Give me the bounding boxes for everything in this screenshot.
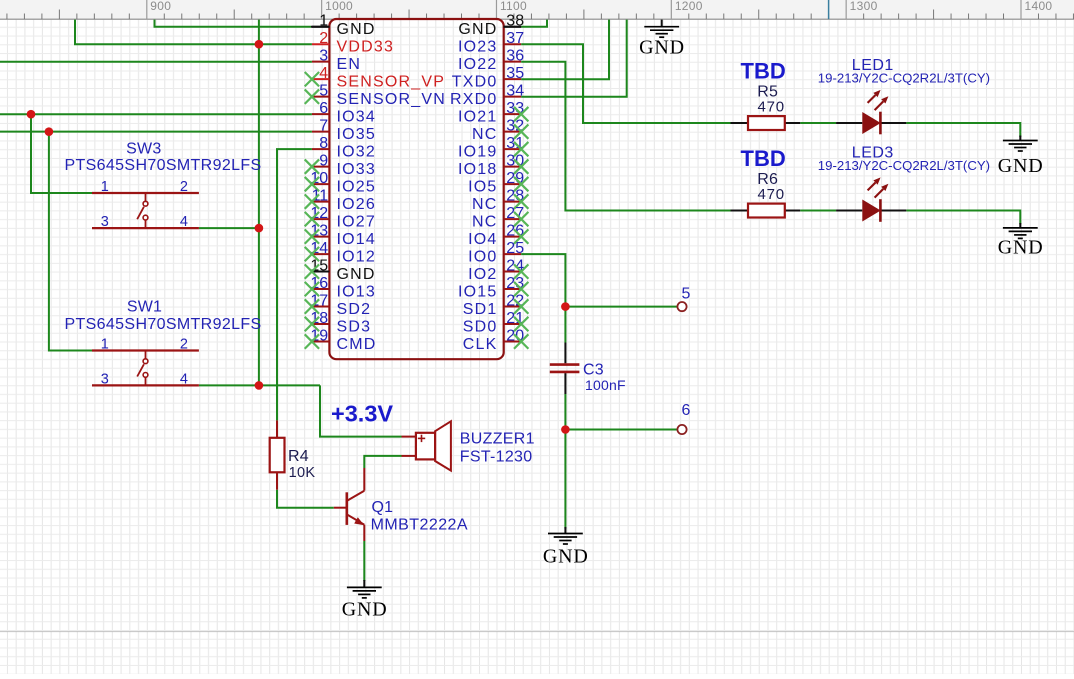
wire IO23 to R5 [521,44,730,123]
svg-text:7: 7 [319,118,328,135]
svg-text:3: 3 [319,48,328,65]
svg-text:SENSOR_VP: SENSOR_VP [337,73,446,90]
wire pin1 stub segment (black) [311,26,329,28]
transistor Q1 [334,468,468,541]
svg-text:1300: 1300 [850,0,878,13]
svg-text:IO13: IO13 [337,283,377,300]
svg-text:900: 900 [150,0,171,13]
wire pin1 GND net [155,20,312,27]
wire R5 to LED1 [800,122,836,124]
capacitor C3 [550,343,626,395]
svg-text:6: 6 [682,402,692,419]
wire Q1 collector to buzzer [364,456,401,468]
junction [255,381,264,390]
wire VDD33 net [75,20,312,45]
svg-text:TBD: TBD [741,59,786,84]
svg-text:8: 8 [319,135,328,152]
svg-text:IO14: IO14 [337,231,377,248]
svg-text:SW1: SW1 [127,299,162,316]
svg-text:Q1: Q1 [372,499,394,516]
wire SW1 pin4 to buzzer node [199,384,320,386]
svg-text:PTS645SH70SMTR92LFS: PTS645SH70SMTR92LFS [65,316,262,333]
svg-text:GND: GND [543,546,589,568]
wire Q1 emitter to GND [363,541,365,581]
svg-text:6: 6 [319,100,328,117]
junction [45,127,54,136]
wire SW3 pin4 to bus [199,227,259,229]
IC U1 (ESP32 module) body [329,19,503,359]
wire pin38 stub segment (black) [504,26,522,28]
wire node to buzzer plus [320,385,402,436]
ground flag (Q1 emitter) [342,580,388,621]
wire IO35 net [0,131,312,133]
U1 pin 27 (NC) [472,205,528,230]
U1 pin 32 (NC) [472,118,528,143]
svg-text:SD2: SD2 [337,301,372,318]
svg-text:NC: NC [472,196,498,213]
wire EN net [0,61,312,63]
svg-text:C3: C3 [583,362,604,379]
svg-text:SENSOR_VN: SENSOR_VN [337,91,447,108]
svg-text:1000: 1000 [325,0,353,13]
U1 pin 22 (SD1) [463,293,529,318]
U1 pin 15 (GND) [305,258,376,283]
buzzer BUZZER1 [402,421,535,470]
svg-text:3: 3 [101,214,110,230]
wire vertical bus to SW pin4s [258,20,260,386]
svg-text:IO2: IO2 [468,266,497,283]
svg-text:SD3: SD3 [337,318,372,335]
U1 pin 37 (IO23) [458,30,524,55]
U1 pin 23 (IO15) [458,275,528,300]
U1 pin 29 (IO5) [468,170,528,195]
svg-text:1: 1 [101,179,110,195]
svg-text:IO15: IO15 [458,283,498,300]
wire LED1 to GND [906,123,1020,137]
wire R4 to Q1 base [277,490,334,508]
svg-text:GND: GND [998,237,1044,259]
resistor R5 [731,59,801,130]
junction [255,224,264,233]
junction [561,425,570,434]
U1 pin 30 (IO18) [458,153,528,178]
U1 pin 17 (SD2) [305,293,372,318]
U1 pin 9 (IO33) [305,153,376,178]
svg-text:3: 3 [101,372,110,388]
ground flag (top, pin38 net) [639,20,685,59]
svg-text:CLK: CLK [463,336,498,353]
U1 pin 10 (IO25) [305,170,376,195]
svg-text:IO23: IO23 [458,38,498,55]
wire IO34 to SW3 pin1 [31,114,92,193]
svg-text:SD1: SD1 [463,301,498,318]
junction [561,302,570,311]
svg-text:2: 2 [180,179,189,195]
svg-text:5: 5 [682,285,692,302]
svg-text:TBD: TBD [741,146,786,171]
U1 pin 31 (IO19) [458,135,528,160]
ground flag (C3 / node 6) [543,527,589,568]
node 6 pad [677,402,691,434]
wire IO34 net [0,113,312,115]
svg-text:NC: NC [472,126,498,143]
wire node 5 horizontal [565,306,677,308]
U1 pin 19 (CMD) [305,328,377,353]
svg-text:SW3: SW3 [126,141,161,158]
ruler [0,0,1074,20]
svg-text:4: 4 [180,214,189,230]
U1 pin 20 (CLK) [463,328,529,353]
U1 pin 1 (GND) [312,13,376,38]
svg-text:R4: R4 [288,448,309,465]
wire TXD0 net [521,20,609,80]
wire RXD0 net [521,20,627,97]
svg-text:9: 9 [319,153,328,170]
resistor R4 [270,420,316,489]
U1 pin 14 (IO12) [305,240,376,265]
U1 pin 24 (IO2) [468,258,528,283]
svg-text:IO12: IO12 [337,248,377,265]
svg-text:IO18: IO18 [458,161,498,178]
U1 pin 36 (IO22) [458,48,524,73]
svg-text:19-213/Y2C-CQ2R2L/3T(CY): 19-213/Y2C-CQ2R2L/3T(CY) [818,71,990,86]
svg-text:IO5: IO5 [468,178,497,195]
svg-text:IO21: IO21 [458,108,498,125]
svg-text:IO32: IO32 [337,143,377,160]
LED3 [818,145,990,222]
svg-text:EN: EN [337,56,362,73]
resistor R6 [731,146,801,217]
wire IO0 pin25 to C3 [521,254,565,342]
svg-text:IO27: IO27 [337,213,377,230]
svg-text:GND: GND [639,37,685,59]
svg-text:1100: 1100 [500,0,527,13]
svg-text:IO4: IO4 [468,231,497,248]
svg-text:IO35: IO35 [337,126,377,143]
junction [27,110,36,119]
svg-text:10K: 10K [289,465,316,481]
svg-text:GND: GND [337,21,376,38]
svg-text:GND: GND [998,155,1044,177]
wire R6 to LED3 [800,210,836,212]
svg-text:4: 4 [319,65,328,82]
U1 pin 8 (IO32) [312,135,376,160]
wire C3 bottom to GND [564,394,566,529]
U1 pin 11 (IO26) [305,188,376,213]
svg-text:1200: 1200 [675,0,703,13]
svg-text:470: 470 [758,98,785,115]
svg-text:PTS645SH70SMTR92LFS: PTS645SH70SMTR92LFS [65,157,262,174]
U1 pin 4 (SENSOR_VP) [305,65,445,90]
svg-text:1400: 1400 [1025,0,1053,13]
svg-text:NC: NC [472,213,498,230]
svg-text:CMD: CMD [337,336,377,353]
U1 pin 3 (EN) [312,48,361,73]
svg-text:IO19: IO19 [458,143,498,160]
LED1 [818,57,990,134]
wire IO32 pin8 to R4 [277,149,312,420]
U1 pin 21 (SD0) [463,310,529,335]
ground flag (LED1) [998,136,1044,178]
U1 pin 33 (IO21) [458,100,528,125]
svg-text:4: 4 [180,372,189,388]
svg-text:IO34: IO34 [337,108,377,125]
svg-text:2: 2 [180,337,189,353]
svg-text:IO22: IO22 [458,56,498,73]
svg-text:IO33: IO33 [337,161,377,178]
svg-text:IO25: IO25 [337,178,377,195]
svg-text:11: 11 [312,188,329,205]
node 5 pad [677,285,691,311]
svg-text:GND: GND [337,266,376,283]
svg-text:GND: GND [458,21,497,38]
U1 pin 7 (IO35) [312,118,376,143]
U1 pin 25 (IO0) [468,240,524,265]
U1 pin 5 (SENSOR_VN) [305,83,446,108]
svg-text:RXD0: RXD0 [450,91,497,108]
svg-text:VDD33: VDD33 [337,38,395,55]
U1 pin 26 (IO4) [468,223,528,248]
wire LED3 to GND [906,211,1020,225]
svg-text:470: 470 [758,186,785,203]
U1 pin 35 (TXD0) [452,65,524,90]
svg-text:5: 5 [319,83,328,100]
svg-text:TXD0: TXD0 [452,73,498,90]
wire pin38 GND net [521,20,547,27]
svg-text:FST-1230: FST-1230 [460,448,533,465]
wire IO35 to SW1 pin1 [49,132,92,351]
junction [255,40,264,49]
U1 pin 12 (IO27) [305,205,376,230]
wire IO22 to R6 [521,62,730,211]
U1 pin 6 (IO34) [312,100,376,125]
svg-text:19-213/Y2C-CQ2R2L/3T(CY): 19-213/Y2C-CQ2R2L/3T(CY) [818,158,990,173]
wire node 6 horizontal [565,429,677,431]
svg-text:1: 1 [101,337,110,353]
U1 pin 28 (NC) [472,188,528,213]
svg-text:BUZZER1: BUZZER1 [460,431,535,448]
U1 pin 38 (GND) [458,13,524,38]
svg-text:+3.3V: +3.3V [331,401,393,427]
U1 pin 34 (RXD0) [450,83,524,108]
U1 pin 18 (SD3) [305,310,372,335]
switch SW1 [65,299,262,388]
U1 pin 16 (IO13) [305,275,376,300]
switch SW3 [65,141,262,231]
U1 pin 13 (IO14) [305,223,376,248]
svg-text:MMBT2222A: MMBT2222A [371,516,468,533]
svg-text:100nF: 100nF [585,377,626,393]
U1 pin 2 (VDD33) [312,30,394,55]
svg-text:GND: GND [342,599,388,621]
ground flag (LED3) [998,223,1044,259]
svg-text:SD0: SD0 [463,318,498,335]
svg-text:IO0: IO0 [468,248,497,265]
svg-text:2: 2 [319,30,328,47]
svg-text:IO26: IO26 [337,196,377,213]
